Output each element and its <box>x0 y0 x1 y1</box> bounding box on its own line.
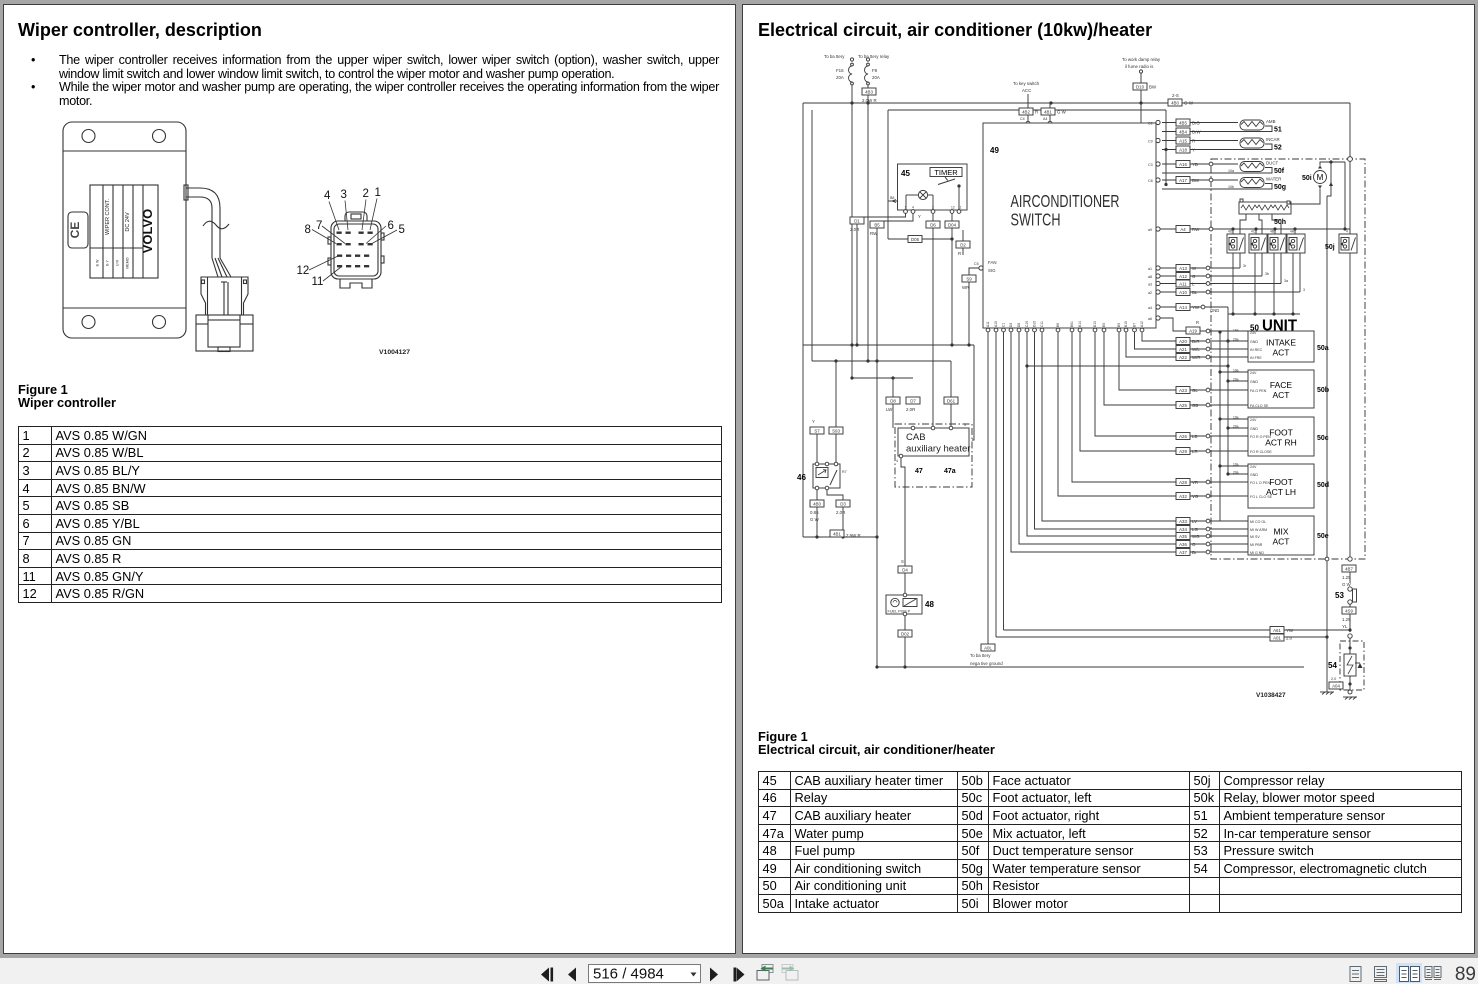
label S D4 <box>898 559 912 573</box>
svg-text:A34: A34 <box>1179 527 1187 532</box>
mounting hole bottom-left <box>82 316 95 329</box>
svg-text:BW: BW <box>1149 85 1157 90</box>
wire A23 GL <box>1206 388 1248 392</box>
wire y361 stub <box>811 110 813 361</box>
wire F8 down <box>867 85 869 361</box>
svg-text:A21: A21 <box>1179 347 1187 352</box>
wire 50j output down <box>1348 253 1352 561</box>
TIMER label <box>930 168 962 178</box>
FAN SIG wire <box>969 268 979 345</box>
svg-text:D6: D6 <box>930 222 936 227</box>
svg-text:D3: D3 <box>1009 323 1013 327</box>
svg-text:LR: LR <box>1192 449 1198 454</box>
svg-text:INTAKE: INTAKE <box>1266 338 1296 348</box>
pin label 8 <box>305 224 337 244</box>
svg-text:a4: a4 <box>1148 306 1152 310</box>
svg-text:4B2: 4B2 <box>1022 109 1030 114</box>
svg-text:A25: A25 <box>1179 403 1187 408</box>
svg-text:LB: LB <box>1192 434 1197 439</box>
svg-text:FUEL PUM P: FUEL PUM P <box>888 610 911 614</box>
label A25 GB <box>1176 402 1198 409</box>
svg-text:G: G <box>1192 274 1196 279</box>
svg-text:4B5: 4B5 <box>1179 120 1187 125</box>
svg-text:20a: 20a <box>1233 378 1239 382</box>
svg-text:4: 4 <box>324 190 331 202</box>
label 4B1 G W <box>1041 108 1067 115</box>
wire from switch pin B9 <box>1119 332 1206 390</box>
svg-text:C3: C3 <box>1148 163 1153 167</box>
pin 4 <box>337 232 342 234</box>
label A17 BW <box>1176 177 1200 184</box>
svg-text:2.0: 2.0 <box>1331 677 1336 681</box>
svg-text:B13: B13 <box>1093 321 1097 327</box>
pin r4c <box>355 265 360 267</box>
label A0L battery ground ref <box>981 644 995 651</box>
svg-text:B61: B61 <box>1070 321 1074 327</box>
svg-text:FO R O PEN: FO R O PEN <box>1250 435 1271 439</box>
svg-text:S93: S93 <box>832 428 840 433</box>
svg-text:B Y: B Y <box>106 260 110 266</box>
relay 50k-4 blower speed <box>1287 234 1305 253</box>
svg-text:53: 53 <box>1335 591 1344 600</box>
relay bus dots <box>1231 227 1346 230</box>
connector pinout: housing <box>328 221 384 279</box>
svg-text:ACT: ACT <box>1273 390 1290 400</box>
resistor 50h <box>1239 199 1291 214</box>
svg-text:Br: Br <box>1192 550 1197 555</box>
svg-text:D04: D04 <box>948 222 957 227</box>
svg-text:BL: BL <box>1192 290 1198 295</box>
relay ground bus <box>1228 312 1300 315</box>
previous page button <box>568 968 576 982</box>
label D2 R <box>956 230 970 256</box>
two page continuous layout icon <box>1425 967 1441 980</box>
wire A34 LG <box>1206 527 1248 531</box>
svg-text:4B1: 4B1 <box>833 531 841 536</box>
intake actuator 50a <box>1248 331 1314 362</box>
label A61 YW <box>1270 627 1294 634</box>
wire from switch pin A11 <box>987 332 989 644</box>
label 2-S 4B0 G-W <box>1168 93 1194 106</box>
svg-text:a9: a9 <box>1148 228 1152 232</box>
relay ground leads <box>1233 253 1293 314</box>
pin 12a <box>337 255 342 257</box>
enclosure crossing circle left <box>1325 557 1329 561</box>
svg-text:24V: 24V <box>1250 331 1257 335</box>
pin label 3 <box>341 189 349 230</box>
svg-text:A12: A12 <box>1140 321 1144 327</box>
label S9 WR <box>962 275 976 290</box>
svg-text:a2: a2 <box>1148 291 1152 295</box>
svg-text:11: 11 <box>958 206 962 210</box>
second bus wire <box>888 109 1166 111</box>
svg-text:B7: B7 <box>1133 323 1137 327</box>
svg-text:3b: 3b <box>1265 272 1269 276</box>
svg-text:A22: A22 <box>1179 355 1187 360</box>
pin 11a <box>355 255 360 257</box>
first page button <box>541 968 553 982</box>
svg-text:FO L O PEN: FO L O PEN <box>1250 481 1270 485</box>
svg-text:A32: A32 <box>1179 494 1187 499</box>
wire from switch pin C10 <box>1027 332 1206 536</box>
wire S7 to relay 46 <box>812 419 817 462</box>
svg-text:47a: 47a <box>944 468 956 475</box>
left bus drop <box>802 103 804 537</box>
wire from switch pin B14 <box>1080 332 1206 451</box>
continuous layout icon <box>1375 967 1387 982</box>
svg-text:FOOT: FOOT <box>1269 477 1293 487</box>
svg-text:19a: 19a <box>1233 416 1239 420</box>
figure: wiper controller <box>0 0 740 420</box>
air conditioning switch 49 box <box>983 123 1156 328</box>
svg-text:A19: A19 <box>1189 328 1197 333</box>
svg-text:MEMO: MEMO <box>126 257 130 268</box>
wire A01 2.0 <box>996 635 1329 638</box>
svg-text:R7: R7 <box>842 470 847 474</box>
label A34 LG <box>1176 526 1198 533</box>
wire A21 W/L <box>1206 347 1248 351</box>
svg-text:B15: B15 <box>1124 321 1128 327</box>
label A35 WG <box>1176 533 1200 540</box>
svg-text:A26: A26 <box>1179 434 1187 439</box>
wire from switch pin B7 <box>1135 332 1207 349</box>
svg-text:A13: A13 <box>1179 266 1187 271</box>
label 4B5 BrG <box>1176 119 1200 126</box>
svg-text:5: 5 <box>399 224 405 236</box>
svg-text:YW: YW <box>1192 305 1200 310</box>
to battery negative ground text <box>970 653 1003 666</box>
svg-text:S: S <box>901 559 904 564</box>
relay 46 output to D3 <box>827 490 843 537</box>
switch bottom pin row <box>986 321 1144 332</box>
relay 50k-1 blower speed <box>1227 234 1245 253</box>
second bus right drop to sensors <box>1165 110 1167 185</box>
svg-text:To ba ttery relay: To ba ttery relay <box>858 54 890 59</box>
svg-text:2.0R: 2.0R <box>906 407 915 412</box>
label A12 G <box>1176 273 1196 280</box>
svg-text:MI PBR: MI PBR <box>1250 543 1263 547</box>
wire from switch pin B5 <box>1104 332 1206 405</box>
svg-text:50i: 50i <box>1302 175 1312 182</box>
svg-text:IN REC: IN REC <box>1250 348 1263 352</box>
right page <box>742 4 1475 954</box>
svg-text:D05: D05 <box>911 237 920 242</box>
battery negative ground bus <box>875 665 1304 668</box>
svg-text:W: W <box>1192 266 1197 271</box>
pin 6 <box>359 243 364 245</box>
svg-text:WR: WR <box>962 285 969 290</box>
pin 8 <box>337 243 342 245</box>
svg-text:4B3: 4B3 <box>865 89 873 94</box>
left page <box>3 4 736 954</box>
motor return jog <box>1327 190 1331 196</box>
last page button <box>734 968 745 982</box>
svg-text:10a: 10a <box>1228 169 1234 173</box>
svg-text:4S9: 4S9 <box>1345 608 1353 613</box>
svg-text:52: 52 <box>1274 145 1282 152</box>
page number combobox <box>589 965 701 983</box>
svg-text:LW: LW <box>886 407 893 412</box>
pin 3 <box>346 232 351 234</box>
svg-text:2.0: 2.0 <box>1286 636 1293 641</box>
wire from switch pin B13 <box>1095 332 1206 436</box>
svg-text:C11: C11 <box>1040 321 1044 327</box>
svg-text:1: 1 <box>905 206 907 210</box>
svg-text:FA CLO SE: FA CLO SE <box>1250 404 1269 408</box>
enclosure entry circle <box>1348 157 1353 162</box>
label D04 <box>945 221 959 228</box>
label A29 LR <box>1176 448 1198 455</box>
relay top pin stubs <box>1228 229 1295 234</box>
label D8 LW <box>886 397 900 412</box>
CAB auxiliary heater timer 45 box <box>898 164 968 210</box>
svg-text:a6: a6 <box>1148 317 1152 321</box>
mounting hole top-left <box>82 130 95 143</box>
pin 12b <box>346 255 351 257</box>
svg-text:a1: a1 <box>1148 267 1152 271</box>
relay 46 <box>813 462 847 490</box>
lamp ground <box>1134 136 1148 155</box>
label D05 <box>908 236 922 243</box>
svg-text:FAN: FAN <box>988 260 997 265</box>
svg-text:Y: Y <box>918 214 921 219</box>
to work lamp relay lead <box>1122 57 1161 126</box>
left table <box>18 426 722 603</box>
svg-text:IN FRE: IN FRE <box>1250 356 1262 360</box>
svg-text:48: 48 <box>925 600 934 609</box>
svg-text:D2: D2 <box>960 242 966 247</box>
svg-text:AMB: AMB <box>1266 119 1276 124</box>
figure: electrical schematic <box>745 40 1478 730</box>
svg-text:A16: A16 <box>1179 162 1187 167</box>
svg-text:AIRCONDITIONER: AIRCONDITIONER <box>1011 191 1120 211</box>
svg-text:auxiliary heater: auxiliary heater <box>906 444 970 455</box>
svg-text:8: 8 <box>305 224 311 236</box>
wire A13 W <box>1148 266 1240 271</box>
svg-text:GND: GND <box>1250 473 1258 477</box>
fuel pump ground wire <box>904 616 906 667</box>
pin label 12 <box>297 256 339 277</box>
svg-text:4B7: 4B7 <box>1345 566 1353 571</box>
label 4B2 R <box>1019 108 1038 115</box>
to key switch ACC lead <box>1013 81 1040 121</box>
label A23 GL <box>1176 387 1198 394</box>
svg-text:W/R: W/R <box>1192 355 1201 360</box>
svg-text:51: 51 <box>1274 127 1282 134</box>
wiper controller body <box>63 122 186 338</box>
svg-text:A4: A4 <box>1043 117 1047 121</box>
svg-text:To ba ttery: To ba ttery <box>970 653 991 658</box>
two page layout icon (active) <box>1396 963 1422 983</box>
svg-text:YW: YW <box>1286 628 1294 633</box>
svg-text:20A: 20A <box>836 75 844 80</box>
svg-text:O: O <box>1192 542 1196 547</box>
svg-text:4: 4 <box>912 206 914 210</box>
label S7 <box>810 427 824 434</box>
label A21 W/L <box>1176 346 1200 353</box>
label A11 L <box>1176 280 1195 287</box>
GND return from switch <box>1025 364 1228 367</box>
label 4B4 BrW <box>1176 128 1201 135</box>
svg-text:il fume radio is: il fume radio is <box>1125 64 1154 69</box>
label A36 O <box>1176 541 1196 548</box>
wire from switch pin D10 <box>1035 332 1207 529</box>
main bus wire from battery <box>803 102 1350 104</box>
svg-text:FO R CLOSE: FO R CLOSE <box>1250 450 1272 454</box>
svg-text:54: 54 <box>1328 661 1337 670</box>
wire timer pin4 to B5 <box>877 214 913 362</box>
GND daisy chain <box>1226 314 1248 476</box>
svg-text:A12: A12 <box>1179 274 1187 279</box>
right page title <box>758 20 1152 41</box>
svg-text:VG: VG <box>1192 494 1199 499</box>
svg-text:20a: 20a <box>1233 471 1239 475</box>
timer feed horizontal <box>888 238 952 240</box>
enclosure crossing circles <box>1209 162 1213 182</box>
svg-text:BW: BW <box>1192 178 1200 183</box>
label A18 Y <box>1176 146 1195 153</box>
switch right terminals to sensors <box>1148 120 1160 183</box>
wire S93 to relay 46 <box>835 361 837 462</box>
svg-text:BrR: BrR <box>1192 339 1200 344</box>
wire A36 O <box>1206 542 1248 546</box>
wire A35 WG <box>1206 534 1248 538</box>
foot actuator left 50d <box>1248 464 1314 508</box>
label A16 YB <box>1176 161 1198 168</box>
wire from switch pin A10 <box>995 332 997 637</box>
svg-text:LG: LG <box>1192 527 1198 532</box>
wire B+ from bus <box>1049 103 1051 121</box>
drop to heater via D61 <box>950 361 952 428</box>
label D10 BW <box>1133 83 1157 90</box>
svg-text:To work damp relay: To work damp relay <box>1122 57 1161 62</box>
next view icon (disabled) <box>782 965 798 981</box>
wire from switch pin C11 <box>1042 332 1206 521</box>
svg-text:R: R <box>1196 320 1199 325</box>
wire A10 BL <box>1148 290 1300 295</box>
label A22 W/R <box>1176 354 1201 361</box>
water temperature sensor 50g <box>1162 177 1286 192</box>
svg-text:INCAR: INCAR <box>1266 137 1280 142</box>
svg-text:6: 6 <box>388 220 394 232</box>
label D7 2.0R <box>906 397 920 412</box>
pin r4a <box>337 265 342 267</box>
wire A22 W/R <box>1206 355 1248 359</box>
label A33 LV <box>1176 518 1197 525</box>
svg-text:ACC: ACC <box>1022 88 1031 93</box>
wire from switch pin B61 <box>1072 332 1206 482</box>
svg-text:M: M <box>1317 173 1324 182</box>
svg-text:A4: A4 <box>1180 227 1186 232</box>
wire A11 L <box>1148 281 1281 286</box>
svg-text:3a: 3a <box>1284 279 1288 283</box>
svg-text:F16: F16 <box>836 68 844 73</box>
label A10 BL <box>1176 289 1198 296</box>
label A20 BrR <box>1176 338 1200 345</box>
pin label 6 <box>366 220 394 244</box>
terminal B+ <box>1043 117 1052 135</box>
CAB auxiliary heater 47 box <box>896 423 970 463</box>
svg-text:A14: A14 <box>1179 305 1187 310</box>
motor bottom wire to resistor <box>1291 189 1320 205</box>
svg-text:VR: VR <box>1192 480 1198 485</box>
svg-text:A11: A11 <box>1179 281 1187 286</box>
svg-text:CE: CE <box>68 222 82 239</box>
label A01 2.0 <box>1270 634 1293 641</box>
svg-text:49: 49 <box>990 146 999 155</box>
svg-text:1: 1 <box>375 187 381 199</box>
label 4B7 1.25 G W <box>1342 565 1356 587</box>
drop to heater pump pin <box>972 345 974 440</box>
label D1 2.0R <box>850 217 864 232</box>
svg-text:a8: a8 <box>1148 275 1152 279</box>
svg-text:CAB: CAB <box>906 432 926 443</box>
timer switch contact <box>938 177 961 212</box>
in-car temperature sensor 52 <box>1162 137 1282 152</box>
label D3 2.0R <box>836 500 850 515</box>
svg-text:A10: A10 <box>1179 290 1187 295</box>
label 2.0 A04 <box>1329 677 1343 689</box>
svg-text:G W: G W <box>1057 110 1067 115</box>
controller label plate <box>90 185 158 278</box>
svg-text:3: 3 <box>964 423 966 427</box>
compressor electromagnetic clutch 54 <box>1344 638 1363 690</box>
long wire to compressor ground <box>1326 196 1328 692</box>
svg-text:B8: B8 <box>890 196 894 200</box>
svg-text:C2: C2 <box>1148 122 1153 126</box>
svg-text:C4: C4 <box>1020 117 1025 121</box>
pin label 7 <box>316 220 345 244</box>
svg-text:20A: 20A <box>872 75 880 80</box>
svg-text:SWITCH: SWITCH <box>1011 210 1061 230</box>
label A32 VG <box>1176 493 1199 500</box>
svg-text:SIG: SIG <box>988 268 996 273</box>
ambient temperature sensor 51 <box>1162 119 1282 134</box>
wire timer pin1 to D1 <box>857 214 906 346</box>
svg-text:MI W ARM: MI W ARM <box>1250 528 1267 532</box>
svg-text:Y: Y <box>812 419 815 424</box>
fuel pump 48 <box>886 593 922 616</box>
svg-text:C9: C9 <box>1148 140 1153 144</box>
24V daisy chain <box>1218 330 1248 521</box>
svg-text:U R: U R <box>116 260 120 267</box>
svg-text:ACT: ACT <box>1273 537 1290 547</box>
svg-text:VOLVO: VOLVO <box>140 209 155 254</box>
svg-text:W/L: W/L <box>1192 347 1200 352</box>
svg-text:D02: D02 <box>901 631 910 636</box>
svg-text:A17: A17 <box>1179 178 1187 183</box>
compressor ground <box>1343 690 1357 700</box>
svg-text:45: 45 <box>901 169 910 178</box>
svg-text:D10: D10 <box>1136 84 1145 89</box>
wire A26 LB <box>1206 434 1248 438</box>
wire F16 down <box>851 85 853 378</box>
pin label 1 <box>370 187 381 230</box>
svg-text:G-W: G-W <box>1184 101 1194 106</box>
svg-text:MI G ND: MI G ND <box>1250 551 1264 555</box>
svg-text:89: 89 <box>1455 964 1476 984</box>
svg-text:A37: A37 <box>1179 550 1187 555</box>
svg-text:GND: GND <box>1210 308 1219 313</box>
CAB auxiliary heater 47 enclosure <box>895 424 972 487</box>
timer B8 feed <box>888 196 898 203</box>
svg-text:4C: 4C <box>1251 230 1256 234</box>
single page layout icon <box>1350 967 1361 982</box>
wire y537 <box>803 535 879 538</box>
indicator lamp <box>1136 126 1146 136</box>
svg-text:A10: A10 <box>994 321 998 327</box>
wire A37 Br <box>1206 550 1248 554</box>
